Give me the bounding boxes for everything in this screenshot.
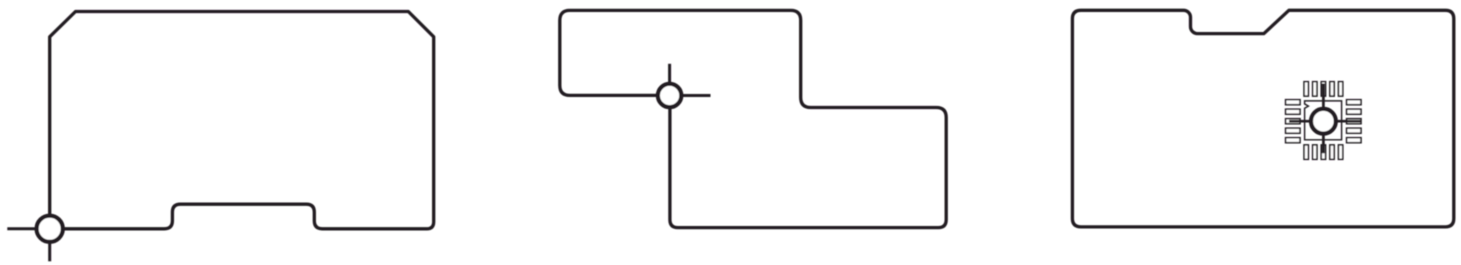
IC center circle <box>1311 109 1336 134</box>
IC footprint U1 body with pin-1 notch <box>1305 101 1342 140</box>
IC left pads <box>1286 100 1300 143</box>
board outline 3 <box>1072 10 1453 227</box>
origin marker 1 circle <box>37 216 63 242</box>
IC bottom pads <box>1304 145 1343 159</box>
IC top pads <box>1304 82 1343 96</box>
board outline 1 <box>50 12 434 229</box>
IC crosshair horizontal line <box>1289 120 1361 123</box>
origin marker 2 circle <box>658 84 681 107</box>
IC crosshair vertical line <box>1322 84 1325 154</box>
origin marker 2 crosshair top arm <box>668 64 671 96</box>
board outline 2 <box>560 10 946 227</box>
origin marker 2 crosshair right arm <box>670 94 711 97</box>
origin marker 1 crosshair bottom arm <box>48 229 51 261</box>
IC right pads <box>1347 100 1361 143</box>
origin marker 1 crosshair left arm <box>7 227 49 230</box>
